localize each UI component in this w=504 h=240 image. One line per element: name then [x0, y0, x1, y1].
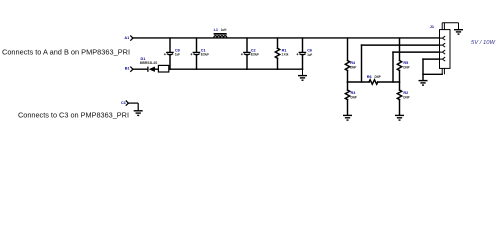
svg-text:J1: J1 — [430, 25, 434, 29]
svg-text:820uF: 820uF — [201, 53, 210, 57]
svg-text:B1: B1 — [125, 67, 130, 71]
svg-text:DNP: DNP — [350, 66, 357, 70]
svg-text:DNP: DNP — [403, 95, 410, 99]
svg-text:DNP: DNP — [351, 95, 358, 99]
svg-text:DNP: DNP — [375, 75, 382, 79]
svg-text:5V / 10W: 5V / 10W — [471, 40, 496, 46]
svg-text:1uF: 1uF — [175, 53, 180, 57]
svg-text:R6: R6 — [367, 75, 372, 79]
svg-text:DNP: DNP — [403, 66, 410, 70]
svg-text:1uF: 1uF — [307, 53, 312, 57]
svg-text:L1: L1 — [214, 28, 218, 32]
svg-text:Connects to C3 on PMP8363_PRI: Connects to C3 on PMP8363_PRI — [18, 111, 129, 120]
svg-text:MBRS3L4S: MBRS3L4S — [140, 61, 158, 65]
svg-text:A1: A1 — [124, 36, 129, 40]
svg-text:820uF: 820uF — [251, 53, 260, 57]
svg-text:1uH: 1uH — [221, 28, 227, 32]
svg-text:2.41k: 2.41k — [282, 53, 289, 57]
svg-text:C1: C1 — [121, 101, 126, 105]
svg-text:Connects to A and B on PMP8363: Connects to A and B on PMP8363_PRI — [2, 48, 130, 57]
